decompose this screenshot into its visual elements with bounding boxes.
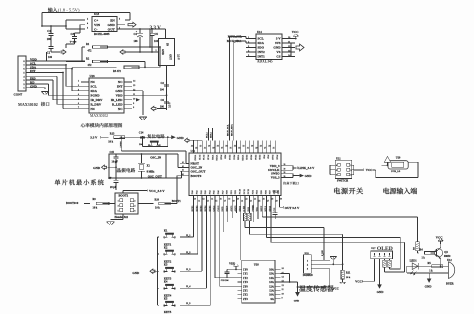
- svg-text:VSS2: VSS2: [237, 155, 239, 160]
- svg-text:INT2: INT2: [258, 50, 266, 54]
- svg-text:21: 21: [241, 201, 243, 203]
- svg-text:1Y2: 1Y2: [243, 277, 248, 280]
- svg-text:ADXL345: ADXL345: [257, 60, 273, 64]
- svg-text:11A: 11A: [269, 290, 274, 293]
- svg-text:MAX30102: MAX30102: [90, 114, 108, 118]
- svg-text:C19 104: C19 104: [221, 280, 230, 282]
- svg-text:SWITCH: SWITCH: [337, 180, 349, 183]
- svg-text:19: 19: [233, 201, 235, 203]
- svg-text:2: 2: [87, 18, 88, 20]
- svg-text:34: 34: [234, 146, 236, 148]
- svg-text:5: 5: [336, 170, 337, 172]
- svg-text:BUZR: BUZR: [446, 283, 455, 286]
- svg-text:29: 29: [255, 148, 257, 150]
- svg-text:6: 6: [336, 175, 337, 177]
- svg-text:PA11: PA11: [275, 155, 278, 160]
- svg-text:2Y0: 2Y0: [243, 285, 248, 288]
- svg-text:(1.8 - 5.5V): (1.8 - 5.5V): [58, 8, 80, 13]
- svg-text:PB11: PB11: [232, 155, 234, 160]
- svg-text:29: 29: [276, 201, 278, 203]
- svg-text:PCB_2.5: PCB_2.5: [391, 170, 401, 173]
- svg-text:1: 1: [156, 50, 157, 52]
- svg-text:OSC_OUT: OSC_OUT: [191, 169, 207, 173]
- svg-text:43: 43: [195, 148, 197, 150]
- svg-text:30: 30: [284, 176, 286, 178]
- svg-text:3: 3: [350, 175, 351, 177]
- svg-text:IN: IN: [166, 43, 169, 46]
- svg-text:GND: GND: [115, 89, 123, 93]
- svg-text:3.3 V: 3.3 V: [90, 136, 98, 140]
- svg-text:4: 4: [134, 205, 135, 207]
- svg-text:NRST: NRST: [119, 142, 121, 149]
- svg-text:BOOT1: BOOT1: [119, 194, 129, 198]
- svg-text:OSC_OUT: OSC_OUT: [148, 174, 162, 178]
- svg-text:3 V: 3 V: [276, 37, 281, 41]
- svg-text:30: 30: [284, 164, 286, 166]
- svg-text:GND: GND: [177, 136, 185, 140]
- svg-text:S8050: S8050: [444, 255, 451, 258]
- svg-text:C1: C1: [47, 29, 51, 33]
- svg-text:SDO: SDO: [258, 46, 265, 50]
- svg-text:30: 30: [280, 199, 282, 201]
- svg-text:3V3: 3V3: [275, 41, 281, 45]
- svg-text:VIN: VIN: [94, 23, 101, 27]
- svg-text:GND: GND: [294, 300, 300, 303]
- svg-text:S_EN: S_EN: [322, 250, 324, 256]
- svg-text:106: 106: [47, 38, 52, 41]
- svg-text:472: 472: [88, 64, 93, 67]
- svg-text:14A: 14A: [269, 277, 274, 280]
- svg-text:KEY5: KEY5: [164, 311, 172, 314]
- svg-text:31: 31: [247, 148, 249, 150]
- svg-text:30: 30: [284, 172, 286, 174]
- svg-text:11: 11: [282, 289, 284, 291]
- svg-text:LINK_3.3 V: LINK_3.3 V: [298, 166, 315, 170]
- svg-text:K3: K3: [164, 264, 168, 267]
- svg-text:1Y0: 1Y0: [243, 269, 248, 272]
- svg-text:9A: 9A: [271, 298, 274, 301]
- svg-text:27: 27: [264, 148, 266, 150]
- svg-text:C14: C14: [139, 131, 144, 134]
- svg-text:CON7: CON7: [14, 93, 23, 97]
- svg-text:11: 11: [198, 201, 200, 203]
- svg-text:2Y2: 2Y2: [243, 294, 248, 297]
- svg-text:INT: INT: [117, 85, 124, 89]
- svg-text:12A: 12A: [269, 285, 274, 288]
- svg-text:VCC_3.3 V: VCC_3.3 V: [149, 189, 165, 193]
- svg-text:1: 1: [118, 201, 119, 203]
- svg-text:10 k: 10 k: [346, 276, 351, 279]
- svg-text:PC12: PC12: [248, 189, 250, 194]
- svg-text:GND: GND: [161, 49, 164, 55]
- svg-text:R3 472: R3 472: [113, 70, 121, 73]
- svg-text:41: 41: [204, 148, 206, 150]
- svg-text:12: 12: [282, 285, 284, 287]
- svg-text:32: 32: [243, 146, 245, 148]
- svg-text:27: 27: [267, 201, 269, 203]
- svg-text:R13: R13: [110, 132, 115, 135]
- svg-text:OUT: OUT: [108, 27, 116, 31]
- svg-text:C+: C+: [94, 18, 98, 22]
- svg-text:22: 22: [246, 199, 248, 201]
- svg-text:13A: 13A: [269, 281, 274, 284]
- svg-text:25: 25: [273, 148, 275, 150]
- svg-text:U10: U10: [396, 157, 401, 160]
- svg-text:10A: 10A: [269, 294, 274, 297]
- svg-text:U13: U13: [94, 12, 100, 16]
- svg-text:U12: U12: [447, 259, 452, 262]
- svg-text:INT1: INT1: [258, 55, 266, 59]
- svg-text:3: 3: [118, 205, 119, 207]
- svg-text:44: 44: [191, 146, 193, 148]
- svg-text:1Y3: 1Y3: [243, 281, 248, 284]
- svg-text:K4: K4: [164, 281, 168, 284]
- svg-text:28: 28: [260, 146, 262, 148]
- svg-text:VDD2: VDD2: [241, 155, 243, 161]
- svg-text:37: 37: [221, 148, 223, 150]
- svg-text:PC10: PC10: [240, 188, 242, 194]
- svg-text:40: 40: [208, 146, 210, 148]
- svg-text:U18: U18: [254, 263, 259, 267]
- svg-text:VDD: VDD: [116, 94, 124, 98]
- svg-text:MCU_SCL: MCU_SCL: [226, 124, 229, 136]
- svg-text:106: 106: [134, 40, 139, 43]
- svg-text:K2: K2: [164, 246, 168, 249]
- svg-text:41: 41: [182, 174, 184, 176]
- svg-text:26: 26: [268, 146, 270, 148]
- svg-text:OSC_IN: OSC_IN: [150, 156, 162, 160]
- svg-text:PB12: PB12: [245, 155, 247, 160]
- svg-text:BOOT1: BOOT1: [172, 200, 182, 203]
- svg-text:23: 23: [250, 201, 252, 203]
- svg-text:20: 20: [237, 199, 239, 201]
- svg-text:39: 39: [212, 148, 214, 150]
- svg-text:K5: K5: [164, 298, 168, 301]
- svg-text:K1: K1: [164, 229, 168, 232]
- svg-text:20 pF: 20 pF: [110, 186, 117, 189]
- svg-text:SDA: SDA: [258, 41, 265, 45]
- svg-text:15: 15: [215, 201, 217, 203]
- svg-text:C-: C-: [94, 27, 97, 31]
- svg-text:OUT 3.3 V: OUT 3.3 V: [285, 206, 300, 210]
- svg-text:4: 4: [87, 23, 88, 25]
- svg-text:PB2: PB2: [235, 190, 237, 194]
- svg-text:2: 2: [134, 201, 135, 203]
- svg-text:IR_DRV: IR_DRV: [91, 98, 104, 102]
- svg-text:GND: GND: [273, 46, 281, 50]
- svg-text:SDA1: SDA1: [210, 131, 213, 138]
- svg-text:U16: U16: [90, 74, 96, 78]
- svg-text:BOOT0: BOOT0: [191, 174, 202, 178]
- svg-text:NC: NC: [118, 107, 123, 111]
- svg-text:41: 41: [182, 170, 184, 172]
- svg-text:T=490: T=490: [70, 40, 77, 43]
- svg-text:VDD_3: VDD_3: [270, 164, 280, 168]
- svg-text:C3: C3: [71, 32, 75, 36]
- svg-text:3.3 V: 3.3 V: [177, 54, 180, 60]
- svg-text:PA1: PA1: [196, 190, 199, 194]
- svg-text:NC: NC: [118, 80, 123, 84]
- svg-text:GND: GND: [93, 166, 101, 170]
- svg-text:VSS_3: VSS_3: [271, 176, 280, 180]
- svg-text:13: 13: [207, 201, 209, 203]
- svg-text:DS18B20: DS18B20: [303, 274, 314, 277]
- svg-text:24: 24: [254, 199, 256, 201]
- svg-text:Q3: Q3: [444, 251, 448, 254]
- svg-text:33: 33: [238, 148, 240, 150]
- svg-text:VDD1: VDD1: [215, 155, 217, 161]
- svg-text:R11: R11: [346, 272, 351, 275]
- svg-text:EN: EN: [110, 18, 115, 22]
- svg-text:U 12: U 12: [273, 191, 279, 194]
- svg-text:10 k: 10 k: [155, 206, 160, 209]
- svg-text:SCL1: SCL1: [206, 132, 208, 138]
- svg-text:VBAT: VBAT: [194, 155, 197, 161]
- svg-text:PC15: PC15: [207, 155, 209, 161]
- svg-text:1: 1: [350, 165, 351, 167]
- svg-text:R_LED: R_LED: [112, 102, 123, 106]
- svg-text:17: 17: [224, 201, 226, 203]
- svg-text:5: 5: [119, 18, 120, 20]
- svg-text:VSS1: VSS1: [211, 155, 213, 160]
- svg-text:BOOT0=0: BOOT0=0: [66, 202, 79, 205]
- svg-text:MAX30102: MAX30102: [18, 102, 38, 107]
- svg-text:VCC: VCC: [366, 168, 372, 172]
- svg-text:IR_LED: IR_LED: [111, 98, 123, 102]
- svg-text:36: 36: [225, 146, 227, 148]
- svg-text:GND: GND: [377, 290, 385, 294]
- svg-text:38: 38: [217, 146, 219, 148]
- svg-text:2Y3: 2Y3: [243, 298, 248, 301]
- svg-text:14: 14: [211, 199, 213, 201]
- svg-text:5: 5: [118, 210, 119, 212]
- svg-text:3.3 V: 3.3 V: [168, 102, 171, 108]
- svg-text:PB1: PB1: [231, 190, 233, 194]
- svg-text:2Y1: 2Y1: [243, 290, 248, 293]
- svg-text:RCHL-0085: RCHL-0085: [94, 32, 110, 36]
- svg-text:C15: C15: [110, 151, 115, 154]
- svg-text:30: 30: [284, 169, 286, 171]
- svg-text:41: 41: [182, 162, 184, 164]
- svg-text:PGND: PGND: [91, 94, 101, 98]
- svg-text:OUT: OUT: [169, 54, 172, 60]
- svg-text:10 pF: 10 pF: [112, 161, 119, 164]
- svg-text:16: 16: [220, 199, 222, 201]
- svg-text:28: 28: [271, 199, 273, 201]
- svg-text:GND: GND: [425, 284, 433, 288]
- svg-text:PC11: PC11: [244, 189, 246, 194]
- svg-text:R10: R10: [155, 198, 160, 201]
- svg-text:472: 472: [88, 50, 93, 53]
- svg-text:U14: U14: [257, 31, 262, 34]
- svg-text:18: 18: [228, 199, 230, 201]
- svg-text:CS: CS: [276, 55, 280, 59]
- svg-text:106: 106: [48, 56, 53, 59]
- svg-text:25: 25: [258, 201, 260, 203]
- svg-text:4: 4: [336, 165, 337, 167]
- svg-text:GND: GND: [305, 174, 313, 178]
- svg-text:12: 12: [203, 199, 205, 201]
- svg-text:VS: VS: [276, 50, 280, 54]
- svg-text:8 MHz: 8 MHz: [147, 171, 155, 174]
- svg-text:10 k: 10 k: [93, 206, 98, 209]
- svg-text:U12: U12: [191, 150, 196, 153]
- svg-text:SCL: SCL: [91, 85, 97, 89]
- svg-text:3.3 V: 3.3 V: [150, 25, 162, 31]
- svg-text:PC14: PC14: [202, 155, 204, 161]
- svg-text:PD2: PD2: [252, 190, 254, 194]
- svg-text:42: 42: [200, 146, 202, 148]
- svg-text:15A: 15A: [269, 273, 274, 276]
- svg-text:30: 30: [251, 146, 253, 148]
- svg-text:10: 10: [194, 199, 196, 201]
- svg-text:SCL: SCL: [258, 37, 264, 41]
- svg-text:Header 3x2: Header 3x2: [115, 216, 129, 219]
- svg-text:1Y1: 1Y1: [243, 273, 248, 276]
- svg-text:GND: GND: [107, 23, 115, 27]
- svg-text:41: 41: [182, 166, 184, 168]
- svg-text:NC: NC: [91, 80, 96, 84]
- svg-text:2: 2: [350, 170, 351, 172]
- svg-text:PA2: PA2: [200, 190, 203, 194]
- svg-text:10 k: 10 k: [108, 141, 113, 144]
- svg-text:R_DRV: R_DRV: [91, 102, 102, 106]
- svg-text:VT1: VT1: [257, 207, 259, 211]
- svg-text:104: 104: [154, 40, 159, 43]
- svg-text:PC13: PC13: [198, 155, 200, 161]
- svg-text:MCU_SDA: MCU_SDA: [231, 124, 234, 136]
- svg-text:16A: 16A: [269, 269, 274, 272]
- svg-text:35: 35: [230, 148, 232, 150]
- svg-text:VCC: VCC: [355, 280, 362, 284]
- svg-text:6: 6: [134, 210, 135, 212]
- svg-text:VCC: VCC: [292, 30, 299, 34]
- svg-text:U11: U11: [336, 158, 341, 161]
- svg-text:3: 3: [87, 27, 88, 29]
- svg-text:NC: NC: [91, 107, 96, 111]
- svg-text:26: 26: [263, 199, 265, 201]
- svg-text:SDA: SDA: [91, 89, 98, 93]
- svg-text:GND: GND: [132, 271, 140, 275]
- svg-text:LED1: LED1: [410, 259, 418, 262]
